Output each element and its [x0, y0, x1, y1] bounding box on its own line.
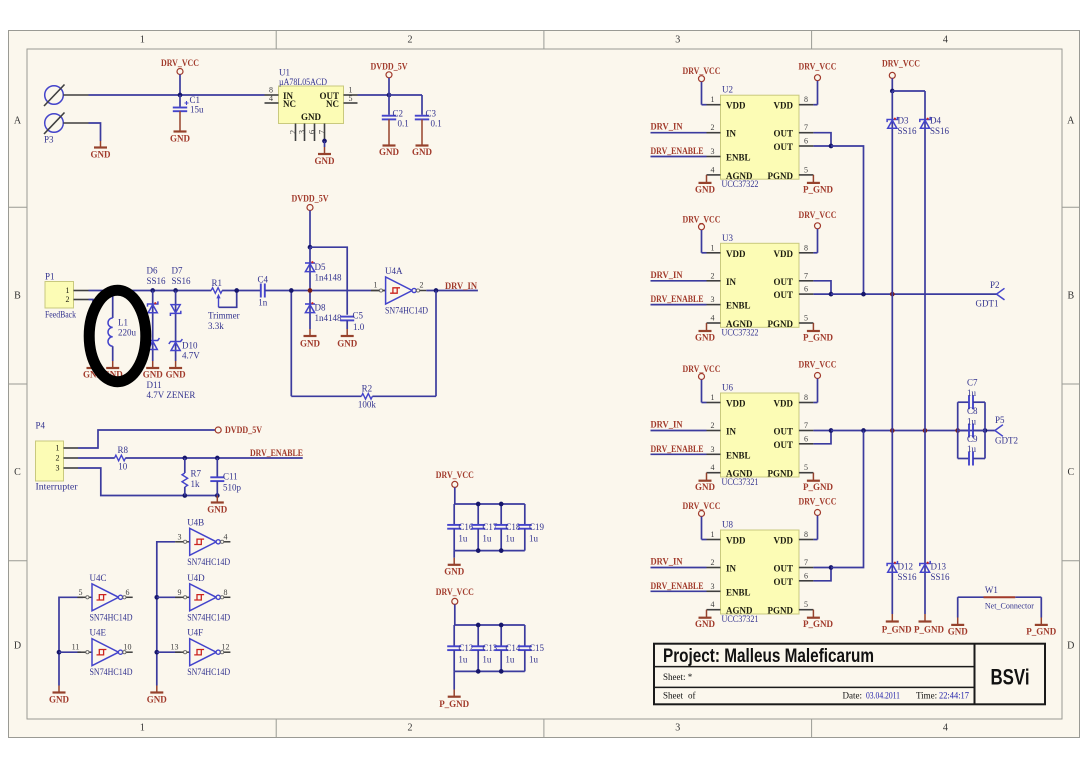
svg-text:2: 2 [408, 35, 413, 46]
svg-text:D10: D10 [182, 341, 198, 351]
svg-text:GND: GND [301, 112, 322, 122]
svg-text:3: 3 [297, 130, 307, 134]
svg-text:C13: C13 [482, 643, 498, 653]
svg-text:P5: P5 [995, 415, 1005, 425]
svg-text:Sheet: Sheet [663, 691, 683, 701]
svg-text:OUT: OUT [773, 564, 793, 574]
svg-text:10: 10 [118, 462, 128, 472]
svg-text:OUT: OUT [773, 129, 793, 139]
svg-text:DRV_VCC: DRV_VCC [683, 364, 721, 374]
svg-text:GND: GND [170, 134, 191, 144]
svg-text:1u: 1u [529, 533, 539, 543]
svg-text:OUT: OUT [773, 277, 793, 287]
svg-text:C3: C3 [426, 109, 437, 119]
svg-text:D: D [14, 641, 21, 652]
svg-text:Project: Malleus Maleficarum: Project: Malleus Maleficarum [663, 645, 874, 667]
svg-text:4.7V ZENER: 4.7V ZENER [147, 390, 196, 400]
svg-text:DVDD_5V: DVDD_5V [225, 425, 262, 435]
svg-text:3.3k: 3.3k [208, 321, 224, 331]
svg-text:6: 6 [804, 571, 808, 580]
svg-text:0.1: 0.1 [398, 119, 409, 129]
svg-text:13: 13 [171, 643, 179, 652]
svg-text:DRV_ENABLE: DRV_ENABLE [651, 444, 704, 454]
svg-text:6: 6 [804, 434, 808, 443]
svg-text:DRV_VCC: DRV_VCC [161, 58, 199, 68]
svg-text:UCC37321: UCC37321 [722, 477, 759, 487]
svg-text:VDD: VDD [726, 536, 746, 546]
svg-text:3: 3 [711, 295, 715, 304]
svg-text:PGND: PGND [768, 171, 794, 181]
svg-text:4: 4 [711, 165, 715, 174]
svg-text:C18: C18 [505, 522, 521, 532]
svg-text:GND: GND [207, 505, 228, 515]
svg-text:D3: D3 [898, 116, 909, 126]
svg-text:GND: GND [444, 567, 465, 577]
svg-text:D6: D6 [147, 266, 158, 276]
svg-text:C14: C14 [505, 643, 521, 653]
svg-text:1u: 1u [505, 655, 515, 665]
svg-text:DRV_IN: DRV_IN [445, 281, 477, 291]
svg-text:P4: P4 [36, 421, 46, 431]
svg-text:1: 1 [711, 393, 715, 402]
svg-text:GND: GND [91, 150, 112, 160]
svg-text:SS16: SS16 [930, 126, 950, 136]
svg-text:R8: R8 [117, 445, 128, 455]
svg-text:W1: W1 [985, 585, 998, 595]
svg-text:D: D [1067, 641, 1074, 652]
svg-text:VDD: VDD [726, 101, 746, 111]
svg-text:D11: D11 [147, 380, 162, 390]
svg-text:6: 6 [307, 130, 317, 134]
svg-text:GND: GND [412, 147, 433, 157]
svg-text:5: 5 [804, 463, 808, 472]
svg-text:7: 7 [317, 130, 327, 134]
svg-text:UCC37322: UCC37322 [722, 327, 759, 337]
svg-text:µA78L05ACD: µA78L05ACD [279, 77, 327, 87]
svg-text:U2: U2 [722, 85, 733, 95]
svg-text:D12: D12 [898, 562, 914, 572]
svg-text:Interrupter: Interrupter [36, 482, 78, 492]
svg-text:1k: 1k [191, 479, 201, 489]
svg-text:3: 3 [711, 582, 715, 591]
svg-text:8: 8 [804, 530, 808, 539]
svg-text:4: 4 [711, 463, 715, 472]
svg-text:1u: 1u [505, 533, 515, 543]
svg-text:5: 5 [804, 600, 808, 609]
svg-text:A: A [14, 116, 22, 127]
svg-text:SS16: SS16 [172, 276, 192, 286]
svg-text:5: 5 [349, 94, 353, 103]
svg-text:U4B: U4B [187, 517, 204, 527]
svg-text:1: 1 [374, 281, 378, 290]
svg-text:VDD: VDD [774, 249, 794, 259]
svg-text:P_GND: P_GND [803, 333, 833, 343]
svg-text:U6: U6 [722, 383, 733, 393]
svg-text:Date:: Date: [843, 691, 863, 701]
svg-text:6: 6 [126, 588, 130, 597]
svg-text:100k: 100k [358, 400, 377, 410]
svg-text:9: 9 [178, 588, 182, 597]
svg-text:2: 2 [711, 558, 715, 567]
svg-text:D13: D13 [931, 562, 947, 572]
svg-text:BSVi: BSVi [991, 664, 1030, 689]
svg-text:C4: C4 [258, 275, 269, 285]
svg-text:C7: C7 [967, 378, 978, 388]
svg-text:4: 4 [943, 35, 948, 46]
svg-text:1u: 1u [458, 655, 468, 665]
svg-text:GND: GND [948, 627, 969, 637]
svg-text:DRV_VCC: DRV_VCC [799, 360, 837, 370]
svg-text:P1: P1 [45, 272, 55, 282]
svg-text:4: 4 [711, 314, 715, 323]
svg-text:DRV_ENABLE: DRV_ENABLE [651, 294, 704, 304]
svg-text:D5: D5 [315, 262, 326, 272]
svg-text:IN: IN [726, 427, 737, 437]
svg-text:U4A: U4A [385, 266, 403, 276]
svg-text:R7: R7 [191, 469, 202, 479]
svg-text:0.1: 0.1 [431, 119, 442, 129]
svg-text:C: C [1067, 467, 1074, 478]
svg-text:Net_Connector: Net_Connector [985, 601, 1034, 611]
svg-text:VDD: VDD [726, 399, 746, 409]
svg-text:510p: 510p [223, 483, 242, 493]
svg-text:U1: U1 [279, 68, 290, 78]
svg-text:IN: IN [726, 564, 737, 574]
svg-text:SN74HC14D: SN74HC14D [90, 667, 133, 677]
svg-text:1: 1 [140, 723, 145, 734]
svg-text:7: 7 [804, 558, 808, 567]
svg-text:P3: P3 [44, 135, 54, 145]
svg-text:2: 2 [66, 295, 70, 304]
svg-text:7: 7 [804, 421, 808, 430]
svg-text:Trimmer: Trimmer [208, 311, 240, 321]
svg-text:GND: GND [147, 695, 168, 705]
svg-text:P_GND: P_GND [803, 619, 833, 629]
svg-text:1: 1 [711, 95, 715, 104]
svg-text:C15: C15 [529, 643, 545, 653]
svg-text:U3: U3 [722, 233, 733, 243]
svg-text:VDD: VDD [774, 536, 794, 546]
svg-text:VDD: VDD [726, 249, 746, 259]
svg-text:1u: 1u [967, 417, 977, 427]
svg-text:GND: GND [695, 619, 716, 629]
svg-text:Time:: Time: [916, 691, 937, 701]
svg-text:GND: GND [166, 370, 187, 380]
svg-text:GND: GND [695, 482, 716, 492]
svg-text:1u: 1u [458, 533, 468, 543]
svg-text:U4F: U4F [187, 628, 203, 638]
svg-text:OUT: OUT [773, 290, 793, 300]
svg-text:UCC37321: UCC37321 [722, 614, 759, 624]
svg-text:DRV_VCC: DRV_VCC [436, 470, 474, 480]
svg-text:C11: C11 [223, 472, 238, 482]
svg-text:FeedBack: FeedBack [45, 310, 76, 320]
svg-text:DRV_VCC: DRV_VCC [683, 66, 721, 76]
svg-text:PGND: PGND [768, 319, 794, 329]
svg-text:C19: C19 [529, 522, 545, 532]
svg-text:OUT: OUT [773, 577, 793, 587]
svg-text:12: 12 [222, 643, 230, 652]
svg-text:ENBL: ENBL [726, 301, 751, 311]
svg-text:SN74HC14D: SN74HC14D [90, 612, 133, 622]
svg-text:VDD: VDD [774, 399, 794, 409]
svg-text:GND: GND [49, 695, 70, 705]
svg-text:2: 2 [711, 421, 715, 430]
svg-text:4: 4 [711, 600, 715, 609]
svg-text:7: 7 [804, 271, 808, 280]
svg-text:B: B [1067, 291, 1074, 302]
svg-text:5: 5 [804, 165, 808, 174]
svg-text:1n4148: 1n4148 [315, 313, 343, 323]
svg-text:D4: D4 [930, 116, 941, 126]
svg-text:6: 6 [804, 137, 808, 146]
svg-text:R2: R2 [362, 384, 373, 394]
svg-text:22:44:17: 22:44:17 [939, 691, 969, 701]
svg-text:GND: GND [379, 147, 400, 157]
svg-text:IN: IN [726, 277, 737, 287]
svg-text:DRV_IN: DRV_IN [651, 420, 683, 430]
svg-text:4: 4 [943, 723, 948, 734]
svg-text:3: 3 [56, 464, 60, 473]
svg-text:L1: L1 [118, 318, 128, 328]
svg-text:6: 6 [804, 285, 808, 294]
svg-text:8: 8 [224, 588, 228, 597]
svg-text:1u: 1u [482, 655, 492, 665]
svg-text:C9: C9 [967, 434, 978, 444]
svg-text:U8: U8 [722, 520, 733, 530]
svg-text:8: 8 [804, 243, 808, 252]
svg-text:P_GND: P_GND [803, 482, 833, 492]
svg-text:P_GND: P_GND [1026, 627, 1056, 637]
svg-text:1u: 1u [967, 388, 977, 398]
svg-text:P_GND: P_GND [439, 699, 469, 709]
svg-text:2: 2 [420, 281, 424, 290]
svg-text:C8: C8 [967, 406, 978, 416]
svg-text:DRV_VCC: DRV_VCC [799, 497, 837, 507]
svg-text:DRV_ENABLE: DRV_ENABLE [250, 448, 303, 458]
svg-text:GND: GND [315, 156, 336, 166]
svg-text:1u: 1u [967, 444, 977, 454]
svg-text:1: 1 [711, 243, 715, 252]
svg-text:3: 3 [711, 445, 715, 454]
svg-text:GDT2: GDT2 [995, 436, 1018, 446]
svg-text:1: 1 [56, 444, 60, 453]
svg-text:C16: C16 [458, 522, 474, 532]
svg-text:C: C [14, 467, 21, 478]
svg-text:DRV_VCC: DRV_VCC [683, 501, 721, 511]
svg-text:GND: GND [695, 333, 716, 343]
svg-text:DRV_VCC: DRV_VCC [436, 587, 474, 597]
svg-text:8: 8 [804, 393, 808, 402]
svg-text:1.0: 1.0 [353, 322, 365, 332]
svg-text:GND: GND [300, 339, 321, 349]
svg-text:DRV_ENABLE: DRV_ENABLE [651, 146, 704, 156]
svg-text:SS16: SS16 [898, 572, 918, 582]
svg-text:DRV_VCC: DRV_VCC [882, 59, 920, 69]
svg-text:P_GND: P_GND [803, 184, 833, 194]
svg-text:3: 3 [675, 723, 680, 734]
svg-text:3: 3 [675, 35, 680, 46]
svg-text:DRV_VCC: DRV_VCC [683, 214, 721, 224]
svg-text:1u: 1u [529, 655, 539, 665]
svg-text:UCC37322: UCC37322 [722, 179, 759, 189]
svg-text:Sheet: *: Sheet: * [663, 672, 693, 682]
svg-text:1n: 1n [258, 298, 268, 308]
svg-text:DRV_IN: DRV_IN [651, 270, 683, 280]
svg-text:PGND: PGND [768, 469, 794, 479]
svg-text:4.7V: 4.7V [182, 351, 200, 361]
svg-text:3: 3 [711, 147, 715, 156]
svg-text:GDT1: GDT1 [976, 299, 999, 309]
svg-text:P_GND: P_GND [914, 625, 944, 635]
svg-text:R1: R1 [211, 278, 222, 288]
svg-text:of: of [688, 691, 696, 701]
svg-text:2: 2 [711, 123, 715, 132]
svg-text:3: 3 [178, 532, 182, 541]
svg-text:15u: 15u [190, 105, 204, 115]
svg-text:4: 4 [224, 532, 228, 541]
svg-text:1: 1 [140, 35, 145, 46]
svg-text:03.04.2011: 03.04.2011 [866, 691, 900, 701]
svg-text:220u: 220u [118, 328, 137, 338]
svg-text:4: 4 [269, 94, 273, 103]
svg-text:11: 11 [72, 643, 80, 652]
svg-text:U4D: U4D [187, 573, 205, 583]
svg-text:P_GND: P_GND [882, 625, 912, 635]
svg-text:5: 5 [804, 314, 808, 323]
svg-text:5: 5 [79, 588, 83, 597]
svg-text:2: 2 [711, 271, 715, 280]
svg-text:1u: 1u [482, 533, 492, 543]
svg-text:DVDD_5V: DVDD_5V [371, 62, 408, 72]
svg-text:SN74HC14D: SN74HC14D [187, 667, 230, 677]
svg-text:VDD: VDD [774, 101, 794, 111]
svg-text:10: 10 [124, 643, 132, 652]
svg-text:8: 8 [804, 95, 808, 104]
svg-text:GND: GND [695, 184, 716, 194]
svg-text:C5: C5 [353, 311, 364, 321]
svg-text:1: 1 [66, 286, 70, 295]
svg-text:OUT: OUT [773, 440, 793, 450]
svg-text:C2: C2 [393, 109, 404, 119]
svg-text:U4E: U4E [90, 628, 107, 638]
svg-text:SS16: SS16 [147, 276, 167, 286]
svg-text:SS16: SS16 [931, 572, 951, 582]
svg-text:A: A [1067, 116, 1075, 127]
svg-text:U4C: U4C [90, 573, 107, 583]
svg-text:GND: GND [337, 339, 358, 349]
svg-text:DRV_IN: DRV_IN [651, 557, 683, 567]
svg-text:7: 7 [804, 123, 808, 132]
svg-text:ENBL: ENBL [726, 450, 751, 460]
svg-text:NC: NC [326, 99, 339, 109]
svg-text:ENBL: ENBL [726, 153, 751, 163]
svg-text:D8: D8 [315, 303, 326, 313]
svg-text:DRV_VCC: DRV_VCC [799, 210, 837, 220]
svg-text:SN74HC14D: SN74HC14D [385, 306, 428, 316]
svg-text:B: B [14, 291, 21, 302]
svg-text:GND: GND [143, 370, 164, 380]
svg-text:PGND: PGND [768, 606, 794, 616]
svg-text:2: 2 [56, 454, 60, 463]
svg-text:C12: C12 [458, 643, 473, 653]
svg-text:OUT: OUT [773, 142, 793, 152]
svg-text:DRV_VCC: DRV_VCC [799, 62, 837, 72]
svg-text:P2: P2 [990, 280, 1000, 290]
svg-text:SN74HC14D: SN74HC14D [187, 557, 230, 567]
svg-text:DRV_IN: DRV_IN [651, 122, 683, 132]
svg-text:D7: D7 [172, 266, 183, 276]
svg-text:1: 1 [711, 530, 715, 539]
svg-text:OUT: OUT [773, 427, 793, 437]
svg-text:NC: NC [283, 99, 296, 109]
svg-text:SS16: SS16 [898, 126, 918, 136]
svg-text:DVDD_5V: DVDD_5V [292, 194, 329, 204]
svg-text:1n4148: 1n4148 [315, 273, 343, 283]
svg-text:2: 2 [408, 723, 413, 734]
svg-text:IN: IN [726, 129, 737, 139]
svg-text:DRV_ENABLE: DRV_ENABLE [651, 581, 704, 591]
svg-text:C1: C1 [190, 95, 201, 105]
svg-text:C17: C17 [482, 522, 498, 532]
svg-text:SN74HC14D: SN74HC14D [187, 612, 230, 622]
svg-text:ENBL: ENBL [726, 587, 751, 597]
